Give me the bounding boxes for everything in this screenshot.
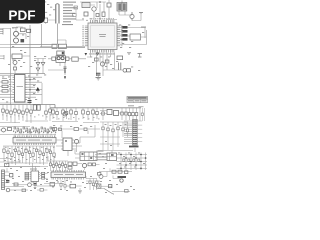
connector CN5 label	[129, 146, 139, 148]
bus rail 2	[0, 102, 30, 104]
capacitor C96	[64, 180, 66, 190]
notes list	[62, 2, 77, 26]
relay K2	[97, 184, 101, 188]
wire	[14, 183, 55, 188]
resistor array RA1	[82, 3, 90, 8]
transistor Q3	[100, 62, 104, 66]
polarized capacitor C9	[85, 53, 88, 56]
resistor R87	[118, 170, 122, 173]
IC U1 pin numbers	[82, 18, 122, 55]
resistor R83	[5, 164, 9, 167]
IC U4 body	[63, 138, 72, 151]
wire	[98, 70, 123, 78]
IC U6 left pins	[30, 173, 32, 179]
capacitor C91	[107, 122, 109, 137]
relay K2 coil	[98, 185, 100, 187]
title block	[127, 97, 148, 103]
label	[2, 77, 7, 80]
resistor R35	[140, 108, 145, 121]
ground	[34, 188, 37, 189]
transistor Q5	[14, 38, 19, 43]
IC U2 right pins	[25, 77, 27, 100]
diode D1	[107, 3, 111, 7]
wire	[27, 77, 42, 104]
IC U5 body	[51, 172, 86, 178]
resistor R27	[52, 108, 55, 119]
wire	[137, 121, 142, 142]
capacitor C61	[52, 161, 54, 171]
capacitor C61	[42, 146, 44, 165]
resistor R8	[105, 60, 109, 63]
diode D6	[41, 63, 45, 66]
resistor R22	[22, 105, 25, 122]
resistor R21	[14, 105, 17, 124]
polarized capacitor C10	[96, 53, 99, 56]
wire	[15, 134, 55, 138]
wire	[52, 122, 99, 123]
power flag	[138, 54, 143, 58]
resistor R70	[68, 162, 72, 165]
IC U1 QFP body	[88, 23, 117, 50]
resistor R82	[14, 183, 18, 186]
IC U6 right pins	[39, 173, 41, 179]
wire	[80, 2, 106, 20]
IC U10 dot	[111, 154, 114, 156]
fuse F2	[123, 69, 130, 73]
resistor R26	[37, 105, 40, 110]
junction	[64, 69, 66, 71]
wire	[75, 148, 108, 160]
capacitor C28	[75, 108, 78, 121]
capacitor C51	[7, 146, 9, 163]
capacitor C95	[60, 180, 62, 190]
wire	[124, 121, 133, 144]
PDF badge	[0, 0, 45, 24]
capacitor C59	[35, 146, 37, 163]
capacitor C64	[61, 161, 63, 171]
capacitor C23	[26, 105, 29, 123]
resistor R34	[132, 108, 135, 120]
transistor Q1	[92, 7, 96, 11]
resistor R25	[33, 105, 36, 110]
resistor R6	[66, 57, 69, 60]
pin number row	[89, 53, 115, 56]
transistor Q12	[28, 183, 32, 187]
delay line DL1	[57, 51, 64, 55]
wire	[76, 9, 84, 20]
transistor Q15	[120, 179, 123, 182]
capacitor C22	[18, 105, 21, 121]
diode D7	[36, 68, 40, 71]
wire	[34, 59, 46, 74]
resistor R78	[25, 178, 29, 180]
net label	[97, 151, 104, 152]
diode D8	[36, 87, 40, 91]
junction	[99, 1, 101, 3]
capacitor C62	[55, 161, 57, 171]
capacitor C98	[74, 6, 78, 9]
resistor R50	[3, 146, 5, 162]
resistor R30	[82, 108, 85, 119]
net label	[128, 105, 134, 106]
capacitor C21	[10, 105, 13, 123]
capacitor C70	[34, 184, 37, 186]
power flag	[139, 13, 143, 15]
resistor R28	[62, 108, 65, 121]
wire	[119, 1, 132, 16]
capacitor C20	[2, 105, 5, 121]
fuse F1	[130, 12, 134, 21]
oscillator Y2	[56, 56, 65, 63]
capacitor C11	[96, 73, 100, 75]
IC U10 body	[107, 153, 117, 161]
IC U5 bottom pins	[52, 178, 84, 180]
diode D10	[107, 110, 112, 115]
resistor pack RP2	[122, 26, 128, 41]
reference designator text	[2, 76, 39, 103]
wire	[48, 156, 68, 161]
connector CN3	[130, 34, 141, 40]
wire	[64, 186, 82, 191]
IC U1 left pins	[85, 26, 88, 46]
capacitor C72	[6, 181, 9, 183]
connector CN2 body	[2, 170, 5, 190]
resistor R4	[52, 44, 57, 48]
diode D3	[117, 56, 123, 60]
resistor R72	[88, 163, 91, 166]
IC U3 body	[13, 138, 56, 144]
capacitor C55	[21, 146, 23, 163]
svg-text:PDF: PDF	[8, 8, 35, 23]
capacitor C63	[49, 146, 51, 163]
crystal X1	[56, 4, 60, 24]
wire	[95, 155, 107, 161]
wire	[0, 146, 55, 167]
resistor R56	[25, 146, 27, 164]
transistor Q14	[99, 175, 103, 179]
junction dots	[120, 154, 146, 169]
resistor R31	[92, 108, 95, 121]
resistor R13	[2, 85, 8, 87]
wire	[98, 189, 130, 192]
capacitor C1	[44, 18, 48, 22]
reference designator text row	[13, 131, 56, 134]
junction	[29, 79, 30, 80]
capacitor C30	[96, 108, 99, 119]
capacitor C31	[102, 108, 105, 120]
resistor R62	[46, 146, 48, 162]
IC U1 inner outline	[91, 26, 115, 48]
resistor R12	[2, 81, 8, 83]
wire	[40, 40, 85, 47]
capacitor C17	[28, 101, 32, 103]
connector CN2 pins	[2, 172, 5, 188]
wire	[16, 27, 26, 45]
connector CN4	[0, 29, 3, 35]
capacitor C3	[96, 14, 99, 17]
capacitor C66	[68, 166, 72, 169]
IC U1 label	[99, 34, 106, 37]
wire	[56, 24, 58, 45]
resistor R85	[98, 173, 101, 176]
resistor R76	[25, 174, 29, 176]
wire diagonal	[104, 189, 114, 195]
capacitor C83	[79, 192, 82, 193]
reference designator text	[44, 2, 105, 21]
resistor R5	[52, 57, 56, 60]
transistor Q9	[2, 128, 6, 132]
reference designator text	[105, 124, 127, 126]
schematic sheet background	[0, 0, 149, 198]
wire	[8, 160, 48, 171]
reference designator text	[53, 125, 92, 127]
relay K1 body	[80, 152, 97, 161]
capacitor C12	[119, 63, 121, 71]
resistor R58	[32, 146, 34, 162]
label	[12, 27, 18, 28]
wire	[94, 185, 112, 187]
ground	[96, 78, 101, 81]
wire	[11, 24, 86, 105]
diode D4	[64, 72, 66, 74]
reference designator text	[4, 141, 112, 188]
power flag	[127, 53, 131, 55]
capacitor C63	[58, 161, 60, 171]
IC U10 inner	[107, 153, 117, 161]
IC U3 bottom pins	[14, 143, 54, 145]
IC U6 bottom pins	[32, 182, 37, 184]
resistor R79	[42, 172, 45, 174]
capacitor C27	[65, 108, 68, 119]
wire	[0, 137, 120, 184]
resistor R75	[25, 172, 29, 174]
reference designator text	[2, 28, 46, 78]
resistor R24	[49, 105, 52, 122]
net label	[141, 27, 146, 28]
reference designator text	[88, 25, 144, 71]
wire	[113, 176, 120, 179]
connector CN5 pins	[133, 120, 137, 144]
capacitor C95	[126, 122, 128, 137]
IC U9	[12, 54, 22, 58]
IC U4 pins	[61, 140, 74, 149]
resistor R52	[11, 146, 13, 164]
resistor R7	[95, 58, 99, 61]
reference designator text	[99, 153, 145, 193]
IC U5 top pins	[52, 170, 84, 172]
resistor R91	[74, 128, 78, 131]
resistor R64	[53, 146, 55, 164]
resistor R29	[70, 108, 73, 120]
wire	[106, 0, 117, 20]
diode D14	[109, 185, 112, 188]
IC U1 right pins	[117, 26, 120, 46]
reference designator text	[5, 147, 55, 160]
reference designator text	[2, 115, 100, 120]
capacitor C77	[125, 190, 129, 193]
wire	[120, 28, 145, 40]
IC U3 label	[16, 139, 52, 142]
wire	[5, 164, 12, 187]
resistor R14	[2, 90, 8, 92]
capacitor C73	[22, 189, 26, 192]
relay K1 grid	[80, 152, 97, 161]
capacitor C80	[89, 179, 91, 191]
capacitor C82	[96, 179, 98, 191]
wire	[46, 20, 56, 24]
IC U2 left pins	[13, 77, 15, 100]
junction	[29, 89, 30, 90]
capacitor C29	[87, 108, 90, 120]
IC U2 label	[17, 86, 24, 87]
wire	[100, 122, 133, 137]
IC U6 label	[30, 169, 37, 170]
resistor R1	[102, 12, 105, 17]
wire	[87, 53, 115, 77]
capacitor C33	[128, 108, 131, 120]
resistor R71	[73, 162, 77, 165]
resistor R10	[21, 28, 26, 32]
wire	[0, 29, 66, 48]
capacitor C92	[112, 122, 114, 137]
capacitor C53	[14, 146, 16, 165]
IC U3 top pins	[14, 136, 54, 138]
wire	[56, 137, 95, 156]
transistor Q13	[6, 188, 10, 192]
wire	[100, 111, 128, 114]
capacitor C90	[102, 122, 104, 137]
resistor R11	[27, 29, 31, 32]
capacitor C13	[64, 67, 67, 69]
resistor R54	[18, 146, 20, 162]
capacitor C16	[14, 67, 17, 70]
IC U1 top pins	[91, 20, 114, 23]
capacitor C34	[135, 108, 138, 120]
diode D11	[114, 111, 119, 116]
wire	[0, 121, 48, 123]
capacitor C65	[64, 161, 66, 171]
net stub	[0, 55, 4, 60]
wire	[37, 189, 47, 191]
transistor Q4	[14, 31, 19, 36]
delay line mark	[62, 52, 64, 54]
wire	[98, 148, 135, 153]
diode D5	[36, 63, 40, 66]
wire	[120, 30, 147, 45]
bus rail	[0, 105, 141, 108]
capacitor C57	[28, 146, 30, 165]
wire	[48, 59, 86, 75]
IC U5 label	[54, 173, 83, 176]
resistor R20	[6, 105, 9, 122]
capacitor C26	[56, 108, 59, 120]
resistor R33	[121, 108, 124, 120]
transistor Q10	[74, 139, 78, 143]
wire	[0, 127, 56, 135]
resistor R99	[73, 14, 77, 17]
capacitor C94	[122, 122, 124, 137]
wire	[99, 168, 132, 176]
IC U6 body	[31, 171, 39, 182]
IC U8	[72, 57, 78, 61]
wire	[10, 184, 28, 191]
wire	[56, 125, 100, 138]
wire	[77, 164, 100, 171]
net label dark	[118, 176, 127, 178]
capacitor C93	[117, 122, 119, 137]
IC U4 marker	[65, 140, 67, 142]
capacitor row above U3	[14, 127, 55, 133]
capacitor C67	[93, 163, 96, 166]
resistor R90	[53, 128, 57, 131]
reference designator text	[10, 167, 88, 191]
resistor R40	[8, 128, 12, 131]
capacitor C15	[21, 39, 25, 42]
IC U1 bottom pins	[91, 50, 114, 53]
capacitor row CR2	[123, 159, 140, 161]
wire	[0, 82, 13, 97]
net label	[139, 106, 144, 107]
wire	[40, 173, 48, 178]
wire	[121, 153, 146, 171]
capacitor C74	[40, 189, 43, 192]
capacitor C86	[84, 128, 87, 131]
transistor Q8	[63, 112, 67, 116]
wire	[86, 176, 97, 179]
wire	[11, 56, 31, 74]
capacitor C71	[50, 183, 55, 186]
resistor R89	[70, 184, 76, 188]
diode D12	[10, 174, 13, 177]
IC U2 DIP body	[15, 75, 26, 103]
IC U7	[58, 44, 66, 48]
transistor Q6	[13, 61, 17, 65]
capacitor C85	[59, 128, 62, 131]
resistor R60	[39, 146, 41, 164]
wire	[0, 74, 30, 76]
resistor array pins	[84, 3, 88, 8]
resistor R81	[42, 177, 45, 179]
connector CN5 body	[133, 120, 138, 146]
capacitor C2	[84, 12, 88, 16]
resistor R77	[25, 176, 29, 178]
capacitor C81	[92, 179, 94, 191]
resistor R23	[30, 105, 33, 124]
transformer T1	[117, 3, 127, 12]
wire	[132, 14, 141, 21]
capacitor C76	[125, 171, 128, 174]
capacitor C24	[45, 105, 48, 121]
relay K1 contacts	[82, 153, 93, 159]
transistor Q11	[82, 163, 86, 167]
capacitor C32	[125, 108, 128, 120]
sheet note	[64, 76, 66, 78]
capacitor C60	[49, 161, 51, 171]
resistor R80	[42, 175, 45, 177]
resistor R86	[112, 170, 116, 173]
wire	[117, 155, 148, 169]
